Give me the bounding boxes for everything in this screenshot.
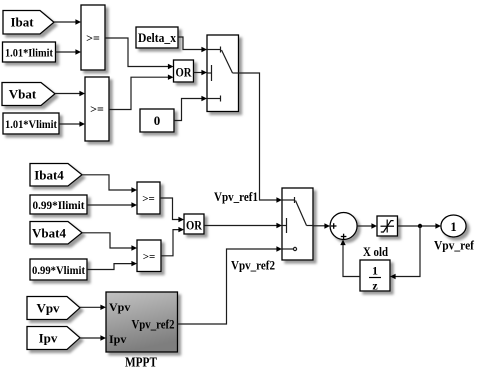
- svg-text:Ipv: Ipv: [109, 332, 126, 346]
- wire RelOp3 to OR2: [160, 198, 184, 222]
- wire OR2 to Switch2: [204, 223, 282, 228]
- input Vbat: [2, 83, 55, 106]
- svg-text:1: 1: [450, 219, 457, 234]
- wire Switch1 to Switch2 (Vpv_ref1 net): [239, 73, 283, 203]
- wire Saturation to outport (with junction): [398, 223, 442, 228]
- wire RelOp2 to OR1: [109, 75, 174, 110]
- wire RelOp1 to OR1: [105, 38, 174, 69]
- wire 0.99*Ilimit to RelOp3: [87, 202, 137, 207]
- relational operator RelOp1 >=: [81, 5, 105, 70]
- wire Ipv to MPPT: [80, 335, 106, 340]
- switch Switch1: [207, 35, 239, 112]
- svg-text:0.99*Ilimit: 0.99*Ilimit: [33, 198, 85, 212]
- svg-text:z: z: [372, 279, 378, 293]
- wire 0.99*Vlimit to RelOp4: [87, 261, 137, 270]
- wire Ibat to RelOp1: [54, 19, 81, 24]
- wire OR1 to Switch1: [194, 70, 208, 75]
- input Ibat4: [30, 164, 82, 187]
- svg-text:MPPT: MPPT: [125, 355, 157, 370]
- svg-text:Vbat: Vbat: [9, 87, 37, 102]
- wire unit delay to Add (feedback): [340, 240, 360, 277]
- wire Switch2 to Add: [313, 223, 330, 228]
- input Ibat: [3, 11, 54, 35]
- wire junction to unit delay: [390, 226, 420, 279]
- constant 0: [140, 109, 174, 132]
- svg-text:Vpv_ref2: Vpv_ref2: [231, 258, 275, 273]
- relational operator RelOp3 >=: [137, 182, 160, 214]
- svg-text:>=: >=: [142, 193, 155, 205]
- wire RelOp4 to OR2: [161, 227, 184, 256]
- wire 1.01*Vlimit to RelOp2: [59, 121, 85, 126]
- svg-text:Vpv_ref1: Vpv_ref1: [214, 189, 258, 204]
- wire Add to Saturation: [357, 223, 377, 228]
- svg-text:OR: OR: [186, 218, 203, 233]
- switch Switch2: [282, 188, 313, 260]
- relational operator RelOp2 >=: [85, 77, 109, 141]
- svg-text:1.01*Vlimit: 1.01*Vlimit: [5, 117, 57, 131]
- wire Vpv to MPPT: [80, 305, 106, 310]
- wire Vbat4 to RelOp4: [82, 233, 137, 251]
- svg-text:Vbat4: Vbat4: [32, 226, 66, 241]
- svg-text:Vpv_ref: Vpv_ref: [434, 238, 475, 253]
- logical operator OR2: [184, 214, 204, 234]
- svg-text:Vpv_ref2: Vpv_ref2: [132, 317, 175, 332]
- wire MPPT to Switch2: [178, 246, 283, 324]
- svg-text:X old: X old: [363, 244, 389, 259]
- svg-text:>=: >=: [86, 31, 100, 45]
- wire 1.01*Ilimit to RelOp1: [56, 49, 82, 54]
- constant 1.01*Ilimit: [3, 42, 56, 62]
- svg-text:>=: >=: [90, 102, 104, 116]
- svg-text:>=: >=: [143, 251, 156, 263]
- input Vbat4: [30, 222, 82, 245]
- relational operator RelOp4 >=: [137, 240, 161, 272]
- outport 1 Vpv_ref: [441, 215, 466, 237]
- svg-text:Ibat4: Ibat4: [34, 168, 64, 183]
- saturation block: [377, 216, 398, 236]
- svg-text:1: 1: [372, 264, 378, 278]
- wire Ibat4 to RelOp3: [82, 175, 137, 193]
- svg-text:Ipv: Ipv: [39, 331, 58, 346]
- constant 0.99*Vlimit: [30, 259, 87, 280]
- svg-text:Vpv: Vpv: [36, 301, 60, 316]
- unit delay 1/z (X old): [360, 260, 390, 293]
- svg-text:1.01*Ilimit: 1.01*Ilimit: [5, 46, 53, 60]
- input Ipv: [27, 327, 80, 350]
- logical operator OR1: [174, 60, 194, 82]
- wire Delta_x to Switch1: [178, 37, 207, 52]
- constant 1.01*Vlimit: [3, 113, 59, 134]
- input Vpv: [27, 297, 80, 320]
- svg-text:OR: OR: [176, 65, 193, 80]
- svg-text:Ibat: Ibat: [10, 15, 34, 30]
- svg-text:Delta_x: Delta_x: [138, 30, 176, 45]
- sum block Add: [330, 213, 357, 240]
- junction node: [418, 224, 422, 228]
- svg-text:Vpv: Vpv: [109, 300, 130, 314]
- constant Delta_x: [136, 27, 178, 48]
- wire constant 0 to Switch1: [174, 96, 207, 121]
- subsystem MPPT: [106, 292, 178, 370]
- wire Vbat to RelOp2: [55, 91, 85, 96]
- constant 0.99*Ilimit: [30, 195, 87, 214]
- svg-text:0.99*Vlimit: 0.99*Vlimit: [32, 263, 85, 277]
- svg-text:0: 0: [154, 113, 161, 128]
